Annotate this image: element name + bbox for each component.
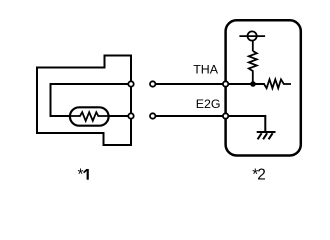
thermistor resistor zigzag	[70, 112, 109, 121]
resistor to ADC (horizontal zigzag)	[264, 79, 291, 88]
pull-up resistor (vertical zigzag)	[249, 51, 257, 84]
wire: harness E2G to ECU	[156, 115, 224, 117]
junction node THA	[250, 81, 256, 87]
ground bar	[257, 131, 276, 133]
wire: thermistor to pin2	[109, 115, 132, 117]
thermistor body (oval)	[70, 107, 109, 125]
svg-text:THA: THA	[193, 63, 219, 77]
power supply bar	[239, 35, 265, 37]
harness pin THA	[150, 81, 155, 86]
svg-text:E2G: E2G	[196, 97, 221, 111]
sensor pin 2 (E2G)	[128, 113, 133, 118]
sensor pin 1 (THA)	[128, 81, 133, 86]
svg-text:2: 2	[257, 167, 266, 184]
wire: E2G inside ECU	[226, 116, 266, 132]
sensor housing outline *1	[37, 56, 131, 146]
ECU pin THA	[223, 81, 228, 86]
wire: harness THA to ECU	[156, 83, 224, 85]
wire: supply to resistor	[252, 41, 254, 51]
wire: THA inside ECU	[226, 83, 265, 85]
power supply circle	[248, 31, 257, 40]
ground hatch strokes	[258, 133, 273, 139]
ECU box *2	[226, 20, 301, 155]
ECU pin E2G	[223, 113, 228, 118]
harness pin E2G	[150, 113, 155, 118]
wire: sensor internal loop (pin1 to thermistor)	[51, 84, 132, 116]
svg-text:*: *	[78, 167, 84, 184]
